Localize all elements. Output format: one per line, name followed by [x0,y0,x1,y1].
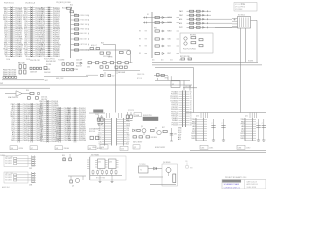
svg-text:CS0: CS0 [99,141,102,143]
transistor Q4 [150,162,178,186]
svg-text:R8: R8 [139,39,141,41]
svg-text:WRL: WRL [188,60,191,62]
svg-text:INT2: INT2 [179,27,183,29]
diode chain D1-D5 [139,12,179,58]
memory U9 pin strip [67,107,87,143]
strip bottom part labels [6,58,55,61]
svg-text:T1 78253: T1 78253 [139,164,146,166]
svg-text:SCK1: SCK1 [240,133,244,135]
svg-text:SCK1: SCK1 [191,133,195,135]
svg-text:18: 18 [190,109,192,111]
ground rail wire [0,151,266,153]
svg-text:Q10: Q10 [196,116,199,118]
svg-text:TXD0: TXD0 [241,119,245,121]
svg-text:IN1 4N35: IN1 4N35 [5,177,12,179]
component field middle C60 group [86,57,140,78]
svg-text:C85: C85 [174,133,177,135]
svg-text:CN5: CN5 [201,147,204,149]
svg-text:R75 C77 R76: R75 C77 R76 [96,178,105,180]
resistor R70 group [154,74,171,81]
svg-text:C72 C73: C72 C73 [128,110,134,112]
svg-text:CN8: CN8 [29,184,32,186]
power label box PL1 [89,110,105,117]
bus wire NET_B [0,84,192,86]
svg-text:SCHEMATIC MAIN: SCHEMATIC MAIN [224,183,240,186]
svg-text:R71 1K: R71 1K [137,78,142,80]
svg-text:R40 R41 R42: R40 R41 R42 [46,61,56,63]
memory U8 pin strip [56,107,72,143]
svg-text:20: 20 [190,114,192,116]
ground rail wire right [190,150,266,152]
svg-text:R55 10K: R55 10K [89,131,96,133]
svg-text:U7: U7 [31,148,33,150]
svg-text:IN1 4N35: IN1 4N35 [5,161,12,163]
svg-text:DQ7: DQ7 [178,135,181,137]
svg-text:OPTO CN8: OPTO CN8 [5,173,13,175]
svg-text:P95/AD1: P95/AD1 [15,55,22,58]
svg-text:PC3: PC3 [40,141,43,143]
svg-text:ISO RS485: ISO RS485 [91,155,99,157]
svg-text:VOUT1: VOUT1 [248,60,253,62]
svg-text:C70: C70 [100,116,103,118]
svg-text:RST: RST [168,53,171,55]
memory U7 pin strip [28,103,44,143]
svg-text:21: 21 [190,116,192,118]
svg-text:D02: D02 [68,140,71,142]
svg-text:R97 2K2 C80: R97 2K2 C80 [180,56,190,58]
svg-text:C: C [262,123,263,125]
svg-text:T1: T1 [140,170,142,172]
resistor array RA1 [18,61,26,74]
IC U100 pin strip [41,7,61,59]
connector J2 pin strip [23,7,43,59]
input protection rows R90-R94 [179,10,232,29]
svg-text:13: 13 [190,98,192,100]
transistor Q2 cluster [133,127,177,144]
svg-text:CN6: CN6 [238,147,241,149]
reset supervisor cluster [89,127,99,139]
memory U6 pin strip [10,103,30,143]
svg-text:R44 1M: R44 1M [76,65,82,67]
svg-text:R22: R22 [101,43,104,45]
reference designator box U8 label [55,146,69,150]
svg-text:CN_MCU_B U100: CN_MCU_B U100 [56,2,71,4]
opto input block U11 with connector CN8 [4,172,36,186]
relay K1 [232,14,251,28]
svg-text:11: 11 [190,94,192,96]
svg-text:Q2: Q2 [155,127,157,129]
svg-text:Q4 IRF540: Q4 IRF540 [163,162,171,164]
svg-text:C62: C62 [112,76,115,78]
regulator U3 [171,81,197,88]
svg-text:PB07: PB07 [192,124,196,126]
svg-text:Q3: Q3 [72,185,74,187]
svg-text:PROJECT NO SHEET 1 OF 4: PROJECT NO SHEET 1 OF 4 [225,177,246,179]
svg-text:R10: R10 [70,4,73,6]
svg-text:CLK: CLK [126,130,129,132]
capacitor C70 C71 with grounds [97,115,103,124]
svg-text:62256: 62256 [19,148,24,150]
wire bus AD to MCU [71,43,131,63]
svg-text:C40 22P: C40 22P [76,59,82,61]
svg-text:C: C [212,123,213,125]
wire U2 VCC [184,80,190,90]
power label box PL2 [134,113,142,117]
svg-text:PC1 PC2 TLP521: PC1 PC2 TLP521 [183,48,196,50]
svg-text:PB07 10K: PB07 10K [80,29,88,31]
svg-text:CS0: CS0 [168,39,171,41]
svg-text:P60/RXD: P60/RXD [51,141,59,143]
capacitor C72 C73 [126,110,134,120]
svg-text:D02: D02 [170,60,173,62]
svg-text:DQ7: DQ7 [126,141,129,143]
svg-text:R99: R99 [62,155,65,157]
svg-text:C95: C95 [185,161,188,163]
svg-text:15: 15 [190,103,192,105]
svg-text:17: 17 [190,107,192,109]
svg-text:U13: U13 [109,161,112,163]
svg-text:P55/D05: P55/D05 [172,125,179,127]
bus wire VOUT1 [152,60,258,62]
wire relay drop A [240,28,242,113]
connector J3 pin strip [39,100,59,143]
reference designator box U15 label [120,146,128,150]
svg-text:C: C [222,123,223,125]
svg-text:R58 R59: R58 R59 [151,137,157,139]
svg-text:16: 16 [190,105,192,107]
svg-text:DC/DC PS1: DC/DC PS1 [143,115,152,117]
DC-DC module T1 cluster [139,164,164,177]
svg-text:R11 4K7: R11 4K7 [62,7,68,9]
svg-text:JP1 1-2 NORM: JP1 1-2 NORM [235,4,246,6]
svg-text:RXD0: RXD0 [98,119,102,121]
title block [222,177,266,190]
svg-text:MOSI: MOSI [126,123,130,125]
transistor Q3 cluster [68,176,86,187]
svg-text:10: 10 [190,92,192,94]
svg-text:JP3 OPEN: JP3 OPEN [235,9,242,11]
transistor Q1 cluster [133,126,147,135]
address latch U15 pin box [117,113,131,146]
svg-text:U15: U15 [121,149,124,151]
svg-text:TXD0 10K: TXD0 10K [80,20,88,22]
svg-text:OPTO CN7: OPTO CN7 [5,157,13,159]
wire relay output [251,20,258,62]
svg-text:INT2: INT2 [98,132,101,134]
bus wire VOUT3 [155,66,193,68]
svg-text:C30 C31 C32: C30 C31 C32 [30,60,40,62]
svg-text:K1 G5V-2: K1 G5V-2 [238,14,245,16]
svg-text:Q1: Q1 [141,126,143,128]
svg-text:D1: D1 [147,14,149,16]
svg-text:CN_MCU_A: CN_MCU_A [25,1,36,4]
reference designator box U6 label [10,146,38,150]
svg-text:MOSI: MOSI [241,135,246,137]
svg-text:OUT1: OUT1 [209,147,213,149]
svg-text:Q2: Q2 [134,147,136,149]
net label table NT1 [3,70,17,79]
svg-text:WRL: WRL [11,140,15,142]
resistor R97 group [180,56,192,60]
bus wire PWR rail [186,112,266,114]
svg-text:GND_OSC: GND_OSC [56,78,64,80]
svg-text:MOSI: MOSI [192,135,197,137]
svg-text:P3V3 VCC5: P3V3 VCC5 [4,2,14,4]
svg-text:MOSI: MOSI [168,22,173,24]
pull-up resistor chain R10-R15 [62,7,89,58]
svg-text:3V3: 3V3 [0,83,3,85]
reference designator box U9 label [88,146,102,150]
svg-text:R80: R80 [154,28,157,30]
svg-text:CS0: CS0 [126,128,129,130]
svg-text:Y1 4MHZ: Y1 4MHZ [58,59,64,61]
vertical wire feed to PWR rail [192,67,194,112]
svg-text:IN2 4N35: IN2 4N35 [5,180,12,182]
svg-text:Q11: Q11 [245,116,248,118]
svg-text:P32/TMS: P32/TMS [79,140,87,142]
component field crystal X1 [44,59,88,80]
reference designator box CN5 [200,145,213,149]
svg-text:IN2 4N35: IN2 4N35 [5,163,12,165]
microcontroller U2 [170,91,191,128]
svg-text:SCK1: SCK1 [168,17,172,19]
bus wire VOUT2 [152,64,262,66]
svg-text:RXD0 10K: RXD0 10K [80,15,88,17]
connector J1 pin strip [3,7,23,59]
svg-text:U14: U14 [101,147,104,149]
svg-text:R70: R70 [165,78,168,80]
svg-text:PB07: PB07 [179,15,183,17]
svg-text:R50: R50 [26,90,29,92]
net text rows left of R70 [137,74,144,80]
sheet header net labels [4,1,244,6]
svg-text:JP2 2-3 PROG: JP2 2-3 PROG [235,6,246,8]
RS-485 transceiver section U12 U13 [87,155,126,183]
svg-text:C: C [257,123,258,125]
reference designator box CN6 [237,145,250,149]
svg-text:R98: R98 [190,168,193,170]
bus wire NET_C [0,87,50,89]
svg-text:OUT2: OUT2 [246,147,250,149]
component cluster bottom mid-left [62,154,71,161]
output driver circuit B [240,113,266,142]
reference designator box U14 label [92,145,108,149]
svg-text:P95/AD1: P95/AD1 [53,55,60,58]
svg-text:TXD0: TXD0 [98,121,102,123]
svg-text:U8: U8 [56,148,58,150]
svg-text:FB1 600R: FB1 600R [118,72,126,74]
svg-text:R46 47K: R46 47K [44,69,51,71]
wire mid rail [155,79,190,81]
svg-text:R45 560: R45 560 [72,69,78,71]
capacitor group C30-C35 [30,60,47,74]
svg-text:VREF C86: VREF C86 [137,74,144,76]
svg-text:BC847 BC857: BC847 BC857 [155,147,165,149]
svg-text:12: 12 [190,96,192,98]
address latch U14 pin box [98,113,112,146]
svg-text:RST: RST [126,132,129,134]
svg-text:DQ3: DQ3 [126,139,129,141]
bus wire NET_A [2,80,49,82]
svg-text:14: 14 [190,100,192,102]
wire relay drop B [245,28,247,62]
svg-text:R8: R8 [139,46,141,48]
vertical wire node N1 [115,45,117,113]
power module PS1 filled box [143,115,158,120]
component cluster right of rail [185,161,193,170]
svg-text:C44 10N: C44 10N [44,72,51,74]
note table top right [234,3,257,12]
svg-text:CONTROL UNIT 2.1: CONTROL UNIT 2.1 [224,187,240,189]
svg-text:R8: R8 [139,31,141,33]
svg-text:PB07: PB07 [98,126,102,128]
svg-text:HD64F QFP100: HD64F QFP100 [44,58,55,60]
svg-text:U9: U9 [89,148,91,150]
reference designator box Q2 label [133,145,165,149]
svg-text:PB07: PB07 [241,124,245,126]
svg-text:R57: R57 [162,127,165,129]
svg-text:C60: C60 [87,66,90,68]
svg-text:C82 C83: C82 C83 [185,86,191,88]
svg-text:INT2 10K: INT2 10K [80,44,88,46]
svg-text:R8: R8 [139,53,141,55]
svg-text:CN7: CN7 [29,168,32,170]
capacitor group C50 [28,97,49,101]
svg-text:INT2: INT2 [241,131,245,133]
svg-text:DQ3: DQ3 [178,132,181,134]
svg-text:L1 FB: L1 FB [108,57,112,59]
svg-text:R95 R96: R95 R96 [190,34,196,36]
opto input block U10 with connector CN7 [4,156,36,170]
svg-text:INT2: INT2 [126,119,129,121]
svg-text:SCK1: SCK1 [126,121,130,123]
svg-text:LS04: LS04 [92,147,96,149]
svg-text:C50 C51: C50 C51 [41,97,47,99]
svg-text:MOSI: MOSI [98,137,102,139]
net stub list right of U2 [178,128,182,142]
wire relay feed [215,26,238,28]
svg-text:100N 16V: 100N 16V [30,71,38,73]
opto-isolator group box [180,33,213,53]
svg-text:U12: U12 [98,161,101,163]
output driver circuit A [191,113,225,142]
svg-text:TXD0: TXD0 [192,119,196,121]
svg-text:INT2: INT2 [192,131,196,133]
svg-text:29F040: 29F040 [64,148,70,150]
buffer U5 triangle [5,90,40,99]
svg-text:U3: U3 [172,84,174,86]
svg-text:D05: D05 [179,60,182,62]
net label row above bus [152,59,191,62]
svg-text:U6: U6 [11,148,13,150]
